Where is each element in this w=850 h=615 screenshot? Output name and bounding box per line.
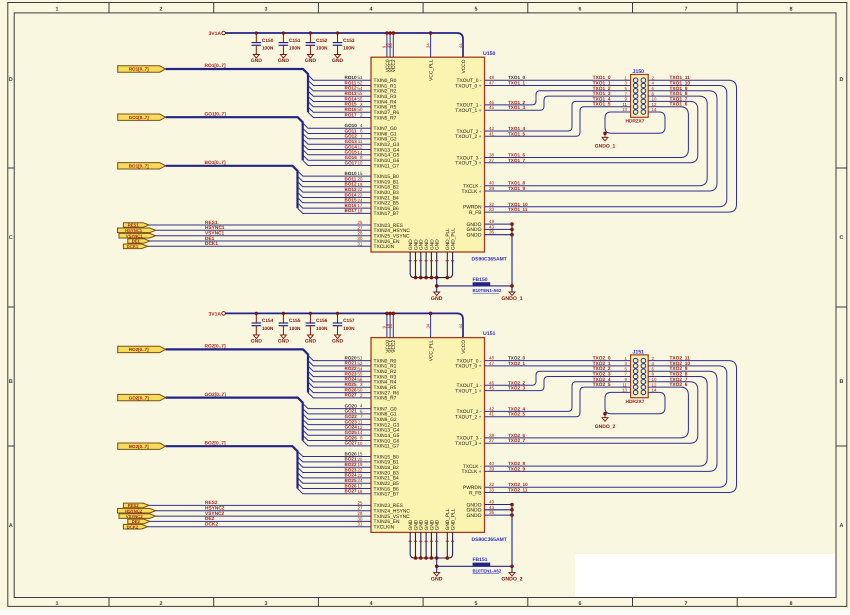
svg-text:14: 14 (652, 388, 657, 393)
svg-text:BO1[0..7]: BO1[0..7] (129, 164, 149, 169)
svg-text:DE2: DE2 (132, 519, 141, 524)
svg-text:TXIN15_B0: TXIN15_B0 (374, 454, 400, 460)
capacitor C153 100N (333, 31, 355, 54)
connector J151 HDR2X7 body (631, 355, 649, 398)
svg-text:GO14: GO14 (345, 144, 358, 149)
svg-text:TXO2_7: TXO2_7 (508, 438, 526, 443)
wire VCC pins to rail (387, 33, 431, 57)
svg-text:GO22: GO22 (345, 414, 358, 419)
svg-text:C: C (840, 235, 844, 241)
svg-text:RES2: RES2 (205, 500, 218, 506)
svg-text:C157: C157 (343, 318, 355, 324)
svg-text:25: 25 (357, 500, 363, 505)
svg-text:3: 3 (265, 601, 268, 607)
svg-text:GND: GND (251, 58, 263, 64)
svg-text:RO17: RO17 (345, 112, 357, 117)
svg-text:41: 41 (489, 412, 495, 417)
wire GO27 to pin TXIN11_G7 (303, 441, 371, 446)
junction dots GNDO (510, 503, 514, 568)
ferrite bead FB150 (437, 277, 512, 293)
svg-text:J151: J151 (633, 349, 645, 355)
svg-text:15: 15 (357, 452, 363, 457)
svg-text:RES1: RES1 (205, 220, 218, 226)
svg-text:TXIN24_HSYNC: TXIN24_HSYNC (374, 228, 411, 234)
svg-text:TXO2_3: TXO2_3 (508, 386, 526, 391)
svg-text:GO13: GO13 (345, 139, 358, 144)
svg-text:11: 11 (622, 102, 627, 107)
svg-text:RO22: RO22 (345, 366, 357, 371)
svg-text:U150: U150 (483, 51, 496, 57)
svg-text:VCCO: VCCO (461, 340, 467, 354)
wire loop TXO1_6 (485, 107, 689, 158)
svg-text:17: 17 (357, 484, 363, 489)
svg-text:43: 43 (489, 224, 495, 229)
svg-text:RO1[0..7]: RO1[0..7] (129, 67, 149, 72)
junction dot header ground (603, 132, 607, 136)
svg-text:BO21: BO21 (345, 457, 357, 462)
svg-text:51: 51 (357, 75, 363, 80)
svg-text:TXIN12_G3: TXIN12_G3 (374, 422, 400, 428)
svg-text:6: 6 (579, 601, 582, 607)
port RO2[0..7] (118, 346, 166, 352)
svg-text:TXO1_5: TXO1_5 (508, 131, 526, 136)
svg-text:GND_PLL: GND_PLL (445, 228, 451, 250)
svg-text:GND: GND (408, 239, 414, 250)
wire loop TXO1_11 (485, 80, 737, 212)
wire header pin13 to ground (605, 392, 665, 413)
svg-text:HDR2X7: HDR2X7 (626, 399, 645, 405)
junction dots GND bus (414, 556, 449, 560)
svg-text:TXOUT_3 +: TXOUT_3 + (455, 161, 481, 167)
svg-text:8: 8 (790, 7, 793, 13)
svg-text:GO12: GO12 (345, 134, 358, 139)
wire loop TXO1_9 (485, 91, 718, 191)
wire TXO1_0 (485, 79, 631, 81)
svg-text:VCC_PLL: VCC_PLL (429, 59, 435, 81)
svg-text:38: 38 (489, 153, 495, 158)
wire RO10 to pin TXIN0_R0 (308, 75, 371, 80)
svg-text:TXIN5_R7: TXIN5_R7 (374, 396, 397, 402)
svg-text:TXOUT_1 +: TXOUT_1 + (455, 388, 481, 394)
svg-text:TXOUT_3 +: TXOUT_3 + (455, 441, 481, 447)
wire GND drop to ferrite (436, 558, 438, 572)
pin names GND and GND_PLL bottom (408, 508, 456, 530)
svg-text:VCC2: VCC2 (391, 340, 397, 353)
wire GND drop to ferrite (436, 278, 438, 292)
svg-text:GND_PLL: GND_PLL (451, 228, 457, 250)
svg-text:GNDO_1: GNDO_1 (501, 296, 522, 302)
svg-text:TXIN27_R6: TXIN27_R6 (374, 110, 400, 116)
svg-text:C153: C153 (343, 38, 355, 44)
svg-text:HSYNC1: HSYNC1 (205, 225, 225, 231)
svg-text:42: 42 (489, 406, 495, 411)
wire TXO2_3 riser (485, 377, 631, 391)
svg-text:DCK2: DCK2 (205, 522, 218, 528)
svg-text:TXIN23_RES: TXIN23_RES (374, 503, 404, 509)
wire RO20 to pin TXIN0_R0 (308, 355, 371, 360)
ground GND under C154 (251, 335, 263, 345)
svg-text:D: D (840, 77, 844, 83)
svg-text:45: 45 (489, 386, 495, 391)
svg-text:RO16: RO16 (345, 107, 357, 112)
svg-text:7: 7 (685, 7, 688, 13)
svg-text:TXO1_7: TXO1_7 (508, 158, 526, 163)
svg-text:47: 47 (489, 81, 495, 86)
svg-text:TXIN2_R2: TXIN2_R2 (374, 89, 397, 95)
svg-text:HSYNC2: HSYNC2 (125, 508, 143, 513)
ground GND under C157 (332, 335, 344, 345)
svg-text:TXCLKIN: TXCLKIN (374, 525, 395, 531)
svg-text:48: 48 (489, 356, 495, 361)
wire BO25 to pin TXIN22_B5 (298, 478, 372, 483)
svg-text:18: 18 (357, 489, 363, 494)
svg-text:BO23: BO23 (345, 467, 357, 472)
ground GNDO_2 below IC (501, 572, 522, 582)
svg-text:TXIN0_R0: TXIN0_R0 (374, 78, 397, 84)
svg-text:33: 33 (489, 488, 495, 493)
svg-text:TXO1_3: TXO1_3 (508, 105, 526, 110)
svg-text:TXIN19_B1: TXIN19_B1 (374, 179, 400, 185)
wire RO23 to pin TXIN3_R3 (308, 371, 371, 376)
svg-text:4: 4 (360, 404, 363, 409)
svg-text:50: 50 (357, 388, 363, 393)
svg-text:DS90C365AMT: DS90C365AMT (472, 537, 507, 543)
svg-text:8: 8 (360, 155, 363, 160)
svg-text:13: 13 (622, 388, 627, 393)
svg-text:TXOUT_0 +: TXOUT_0 + (455, 83, 481, 89)
svg-text:RO25: RO25 (345, 382, 357, 387)
svg-text:4: 4 (370, 7, 373, 13)
svg-text:TXIN1_R1: TXIN1_R1 (374, 83, 397, 89)
pin numbers header right 2-14 (652, 356, 657, 393)
wire loop TXO2_9 (485, 371, 718, 471)
svg-text:30: 30 (357, 236, 363, 241)
svg-text:GNDO_1: GNDO_1 (595, 144, 616, 150)
svg-text:30: 30 (357, 516, 363, 521)
wire GO26 to pin TXIN10_G6 (303, 435, 371, 440)
svg-text:TXOUT_1 -: TXOUT_1 - (456, 103, 481, 109)
svg-text:TXO1_8: TXO1_8 (508, 181, 526, 186)
wire TXO2_4 riser (485, 382, 631, 412)
svg-text:1: 1 (56, 601, 59, 607)
svg-text:TXIN14_G5: TXIN14_G5 (374, 433, 400, 439)
svg-text:3: 3 (360, 102, 363, 107)
svg-text:3V1A: 3V1A (208, 31, 221, 37)
junction dots on power rail (385, 31, 432, 35)
junction dots on power rail (385, 312, 432, 316)
port GO2[0..7] (118, 394, 166, 400)
ground GND below IC (431, 292, 443, 302)
svg-text:RO15: RO15 (345, 102, 357, 107)
svg-text:54: 54 (357, 86, 363, 91)
wire BO26 to pin TXIN16_B6 (298, 483, 372, 488)
connector J150 HDR2X7 body (631, 75, 649, 118)
svg-text:B: B (9, 379, 13, 385)
svg-text:RO23: RO23 (345, 371, 357, 376)
svg-text:22: 22 (357, 468, 363, 473)
svg-text:GO25: GO25 (345, 430, 358, 435)
svg-text:TXIN20_B3: TXIN20_B3 (374, 190, 400, 196)
svg-text:10: 10 (652, 377, 657, 382)
wire TXO2_1 (485, 365, 631, 367)
svg-text:RES2: RES2 (128, 503, 140, 508)
wire loop TXO2_11 (485, 361, 737, 493)
svg-text:TXIN8_G1: TXIN8_G1 (374, 412, 397, 418)
svg-text:TXIN19_B1: TXIN19_B1 (374, 460, 400, 466)
svg-text:TXO2_11: TXO2_11 (508, 488, 528, 493)
svg-text:100N: 100N (316, 326, 328, 332)
svg-text:54: 54 (357, 366, 363, 371)
wire TXO1_2 riser (485, 91, 631, 105)
svg-text:TXIN3_R3: TXIN3_R3 (374, 94, 397, 100)
svg-text:BO22: BO22 (345, 462, 357, 467)
wire TXO2_2 riser (485, 371, 631, 385)
svg-text:18: 18 (357, 208, 363, 213)
svg-text:44: 44 (458, 43, 463, 48)
port DCK2 (123, 524, 147, 529)
svg-text:TXIN7_G0: TXIN7_G0 (374, 126, 397, 132)
junction dots GND bus (414, 276, 449, 280)
svg-text:TXIN17_B7: TXIN17_B7 (374, 211, 400, 217)
svg-text:48: 48 (489, 75, 495, 80)
svg-text:TXO1_9: TXO1_9 (508, 186, 526, 191)
ground GND under C151 (278, 55, 290, 65)
wire RO21 to pin TXIN1_R1 (308, 361, 371, 366)
svg-text:BO2[0..7]: BO2[0..7] (129, 444, 149, 449)
svg-text:TXO2_5: TXO2_5 (508, 412, 526, 417)
wire RO14 to pin TXIN4_R4 (308, 96, 371, 101)
svg-text:GND: GND (278, 58, 290, 64)
junction dot GND/FB node (435, 565, 439, 569)
port RES1 (123, 223, 149, 228)
svg-text:TXOUT_0 -: TXOUT_0 - (456, 78, 481, 84)
svg-text:DE1: DE1 (205, 236, 215, 242)
wire GO17 to pin TXIN11_G7 (303, 160, 371, 165)
wire RO26 to pin TXIN27_R6 (308, 387, 371, 392)
svg-text:TXO1_4: TXO1_4 (508, 126, 526, 131)
svg-text:GO17: GO17 (345, 160, 358, 165)
svg-text:R_FB: R_FB (469, 490, 482, 496)
port BO1[0..7] (118, 163, 166, 169)
svg-text:28: 28 (357, 511, 363, 516)
svg-text:RO11: RO11 (345, 80, 357, 85)
svg-text:36: 36 (489, 510, 495, 515)
wire GO22 to pin TXIN9_G2 (303, 414, 371, 419)
svg-text:23: 23 (357, 193, 363, 198)
svg-text:37: 37 (489, 438, 495, 443)
svg-text:GND: GND (305, 58, 317, 64)
wire loop TXO2_10 (485, 366, 727, 487)
pin number ticks bottom pins (409, 540, 455, 542)
svg-text:36: 36 (489, 230, 495, 235)
svg-text:GNDO: GNDO (467, 233, 482, 239)
wire GO12 to pin TXIN9_G2 (303, 134, 371, 139)
wire BO21 to pin TXIN19_B1 (298, 457, 372, 462)
svg-text:28: 28 (357, 231, 363, 236)
svg-text:BO12: BO12 (345, 182, 357, 187)
wire BO15 to pin TXIN22_B5 (298, 198, 372, 203)
svg-text:BO17: BO17 (345, 208, 357, 213)
wire TXO2_5 riser (485, 387, 631, 417)
svg-text:3: 3 (265, 7, 268, 13)
svg-text:VSYNC1: VSYNC1 (126, 233, 143, 238)
capacitor C157 100N (333, 312, 355, 335)
svg-text:DE1: DE1 (132, 239, 141, 244)
svg-text:TXCLK -: TXCLK - (463, 184, 482, 190)
svg-text:10: 10 (652, 97, 657, 102)
svg-text:3: 3 (360, 382, 363, 387)
pin numbers header left 1-13 (622, 75, 627, 112)
svg-text:38: 38 (489, 433, 495, 438)
port DCK1 (123, 244, 147, 249)
ground GNDO_2 under header (595, 414, 616, 430)
svg-text:TXIN25_VSYNC: TXIN25_VSYNC (374, 514, 411, 520)
pin names GNDO x3 (467, 222, 482, 239)
svg-text:C151: C151 (289, 38, 301, 44)
svg-text:C: C (9, 235, 13, 241)
svg-text:TXOUT_2 -: TXOUT_2 - (456, 129, 481, 135)
svg-text:GND: GND (413, 239, 419, 250)
svg-text:TXIN5_R7: TXIN5_R7 (374, 115, 397, 121)
svg-text:41: 41 (489, 131, 495, 136)
svg-text:GO24: GO24 (345, 425, 358, 430)
svg-text:11: 11 (358, 139, 363, 144)
IC U150 DS90C365AMT body (371, 57, 485, 252)
svg-text:26: 26 (388, 43, 393, 48)
svg-text:27: 27 (357, 225, 363, 230)
svg-text:8: 8 (360, 436, 363, 441)
svg-text:32: 32 (489, 202, 495, 207)
wire VSYNC1 (156, 235, 371, 237)
wire GO23 to pin TXIN12_G3 (303, 419, 371, 424)
svg-text:BO15: BO15 (345, 198, 357, 203)
svg-text:RO13: RO13 (345, 91, 357, 96)
wire GO16 to pin TXIN10_G6 (303, 155, 371, 160)
ground GND under C153 (332, 55, 344, 65)
svg-text:TXIN18_B2: TXIN18_B2 (374, 465, 400, 471)
svg-text:GNDO_2: GNDO_2 (595, 424, 616, 430)
svg-text:VSYNC1: VSYNC1 (205, 231, 225, 237)
svg-text:2: 2 (360, 113, 363, 118)
svg-text:TXIN17_B7: TXIN17_B7 (374, 492, 400, 498)
svg-text:14: 14 (357, 430, 363, 435)
svg-text:12: 12 (357, 425, 363, 430)
svg-text:4: 4 (370, 601, 373, 607)
port VSYNC2 (119, 514, 156, 519)
svg-text:PWRDN: PWRDN (463, 205, 482, 211)
svg-text:BO16: BO16 (345, 203, 357, 208)
svg-text:BO20: BO20 (345, 451, 357, 456)
svg-text:A: A (840, 523, 844, 529)
svg-text:HSYNC2: HSYNC2 (205, 506, 225, 512)
svg-text:39: 39 (489, 186, 495, 191)
svg-text:DE2: DE2 (205, 516, 215, 522)
svg-text:GO15: GO15 (345, 150, 358, 155)
wire RES2 (149, 504, 371, 506)
net labels header right (670, 356, 691, 389)
svg-text:GND: GND (424, 519, 430, 530)
svg-text:5: 5 (475, 601, 478, 607)
svg-text:TXIN3_R3: TXIN3_R3 (374, 374, 397, 380)
svg-text:TXIN2_R2: TXIN2_R2 (374, 369, 397, 375)
svg-text:TXIN14_G5: TXIN14_G5 (374, 153, 400, 159)
svg-text:50: 50 (357, 107, 363, 112)
wire bus BO1[0..7] (166, 166, 298, 208)
wire bus RO1[0..7] (166, 69, 308, 112)
svg-text:15: 15 (357, 171, 363, 176)
ground GND below IC (431, 572, 443, 582)
svg-text:TXIN18_B2: TXIN18_B2 (374, 185, 400, 191)
wire loop TXO2_6 (485, 387, 689, 438)
svg-text:GO20: GO20 (345, 403, 358, 408)
svg-text:46: 46 (489, 380, 495, 385)
wire TXO1_1 (485, 85, 631, 87)
wire GO25 to pin TXIN14_G5 (303, 430, 371, 435)
svg-text:37: 37 (489, 158, 495, 163)
svg-text:TXIN6_R5: TXIN6_R5 (374, 105, 397, 111)
svg-text:TXIN0_R0: TXIN0_R0 (374, 358, 397, 364)
svg-text:TXIN15_B0: TXIN15_B0 (374, 174, 400, 180)
ground GND under C156 (305, 335, 317, 345)
svg-text:52: 52 (357, 81, 363, 86)
svg-text:TXO2_1: TXO2_1 (508, 361, 526, 366)
svg-text:2: 2 (160, 7, 163, 13)
svg-text:TXIN11_G7: TXIN11_G7 (374, 163, 400, 169)
svg-text:TXIN10_G6: TXIN10_G6 (374, 438, 400, 444)
svg-text:TXO1_1: TXO1_1 (508, 81, 526, 86)
wire VCC pins to rail (387, 313, 431, 337)
svg-text:BO25: BO25 (345, 478, 357, 483)
svg-text:52: 52 (357, 361, 363, 366)
svg-text:TXIN21_B4: TXIN21_B4 (374, 195, 400, 201)
svg-text:1: 1 (56, 7, 59, 13)
svg-text:TXIN24_HSYNC: TXIN24_HSYNC (374, 509, 411, 515)
svg-text:GND: GND (305, 339, 317, 345)
junction dot header ground (603, 412, 607, 416)
svg-text:GND: GND (419, 519, 425, 530)
pin numbers 49 43 36 (489, 219, 495, 235)
wire BO11 to pin TXIN19_B1 (298, 176, 372, 181)
wire loop TXO1_10 (485, 86, 727, 207)
svg-text:TXOUT_2 +: TXOUT_2 + (455, 134, 481, 140)
pin names GNDO x3 (467, 502, 482, 519)
svg-text:RO21: RO21 (345, 361, 357, 366)
wire DCK2 (148, 526, 371, 528)
wire bus RO2[0..7] (166, 349, 308, 392)
svg-text:VCC_PLL: VCC_PLL (429, 340, 435, 362)
svg-text:DS90C365AMT: DS90C365AMT (472, 257, 507, 263)
svg-text:BO26: BO26 (345, 483, 357, 488)
svg-text:GND: GND (332, 339, 344, 345)
svg-text:GO21: GO21 (345, 409, 358, 414)
IC U151 DS90C365AMT body (371, 338, 485, 533)
svg-text:HDR2X7: HDR2X7 (626, 119, 645, 125)
svg-text:GND: GND (413, 519, 419, 530)
svg-text:GND: GND (435, 519, 441, 530)
svg-text:55: 55 (357, 91, 363, 96)
wire BO14 to pin TXIN21_B4 (298, 192, 372, 197)
svg-text:56: 56 (357, 377, 363, 382)
wire BO17 to pin TXIN17_B7 (298, 208, 372, 213)
wire GO15 to pin TXIN14_G5 (303, 150, 371, 155)
svg-text:31: 31 (357, 241, 363, 246)
wire BO23 to pin TXIN20_B3 (298, 467, 372, 472)
svg-text:11: 11 (622, 382, 627, 387)
svg-text:13: 13 (622, 107, 627, 112)
port HSYNC2 (118, 508, 156, 513)
wire DCK1 (148, 245, 371, 247)
svg-text:55: 55 (357, 372, 363, 377)
